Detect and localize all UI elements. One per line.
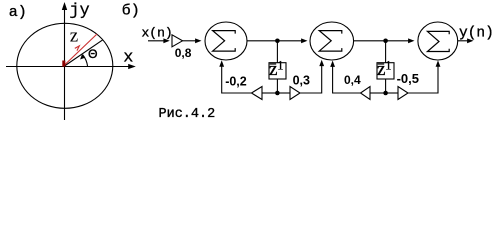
output wire [458,38,474,43]
wire sum2 to sum3 [354,38,415,43]
input wire [148,38,170,43]
radius line to pole [65,40,104,66]
svg-text:0,8: 0,8 [175,46,192,60]
svg-text:-0,5: -0,5 [397,71,419,86]
svg-text:0,4: 0,4 [344,73,361,87]
feedback wire left of node 2 [370,92,386,94]
svg-text:а): а) [9,4,27,21]
svg-text:-0,2: -0,2 [225,75,247,89]
gain 0,8 triangle [172,35,183,47]
svg-text:0,3: 0,3 [293,73,310,87]
angle arc with arrow [80,54,88,66]
feedback wire right of node [277,92,290,94]
svg-text:x: x [123,49,133,68]
svg-text:z: z [377,59,385,80]
summator 2 [310,22,354,60]
node 1 [275,39,280,44]
wire from 0,4 up into sum2 [330,61,360,94]
gain -0,2 triangle [252,87,263,100]
delay z-1 block 2 [377,59,394,80]
svg-text:1: 1 [385,59,391,73]
svg-text:x(n): x(n) [142,25,173,40]
feedback wire right of node 2 [386,92,398,94]
svg-text:z: z [70,25,78,46]
wire from 0,3 up into sum2 [300,60,324,93]
svg-text:б): б) [122,2,140,19]
wire node1 to delay 1 [276,41,278,63]
y-axis [62,2,67,120]
wire node2 to delay 2 [385,41,387,63]
node 2 [383,39,388,44]
svg-text:jy: jy [69,2,89,21]
gain -0,5 triangle [398,87,408,100]
node below delay1 [275,91,280,96]
svg-text:y(n): y(n) [459,26,494,42]
summator 3 [418,22,458,60]
node below delay2 [383,91,388,96]
delay z-1 block 1 [269,59,286,80]
wire delay1 down [276,79,278,93]
red vector z [64,34,97,66]
gain 0,4 triangle [361,87,371,100]
svg-text:z: z [269,59,277,80]
feedback wire left of node [262,92,277,94]
red mid arrowhead [75,46,80,51]
svg-text:Θ: Θ [88,47,97,61]
summator 1 [205,22,247,60]
wire from -0,2 up into sum1 [219,60,251,93]
red origin mark [62,61,65,67]
wire from -0,5 up into sum3 [408,60,440,93]
wire sum1 to sum2 [247,38,308,43]
wire to sum 1 [183,38,202,43]
svg-text:Рис.4.2: Рис.4.2 [159,107,216,122]
svg-text:1: 1 [277,59,283,73]
wire delay2 down [385,79,387,93]
unit circle [17,23,113,108]
gain 0,3 triangle [290,87,300,100]
x-axis [6,64,136,69]
